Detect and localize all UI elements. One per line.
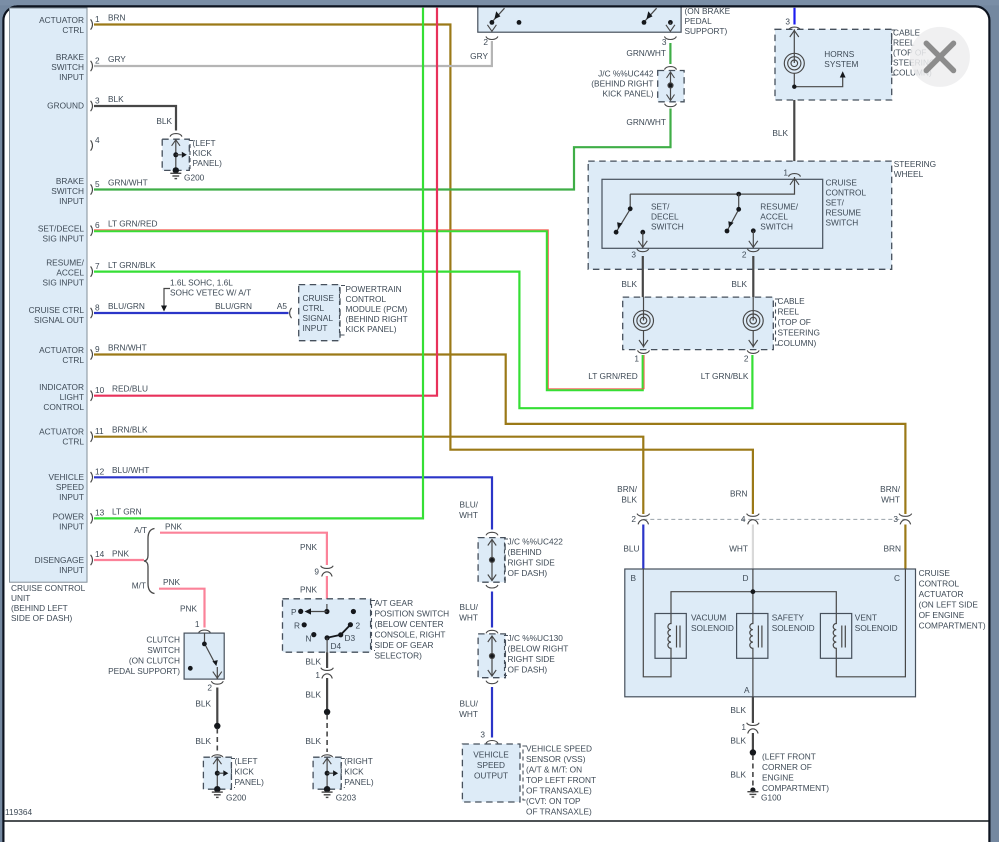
svg-text:A/T GEAR: A/T GEAR (375, 598, 414, 608)
svg-text:3: 3 (662, 37, 667, 47)
svg-text:BLK: BLK (305, 690, 321, 700)
connector row dashed line (643, 518, 905, 520)
svg-text:BLK: BLK (772, 128, 788, 138)
svg-text:N: N (306, 634, 312, 644)
BLU/WHT label (459, 602, 479, 623)
svg-text:CONTROL: CONTROL (919, 579, 960, 589)
switch feed bus (630, 177, 794, 194)
A/T gear position switch box (283, 599, 371, 652)
svg-text:BRN: BRN (883, 544, 901, 554)
cable reel coil (steering column, horn circuit) (784, 53, 804, 73)
svg-text:2: 2 (356, 621, 361, 631)
note 1.6L SOHC (161, 278, 251, 312)
svg-text:SET/: SET/ (826, 198, 845, 208)
svg-text:(BELOW RIGHT: (BELOW RIGHT (508, 644, 569, 654)
svg-text:PEDAL: PEDAL (685, 16, 713, 26)
svg-text:CONTROL: CONTROL (43, 402, 84, 412)
svg-text:LT GRN: LT GRN (112, 507, 142, 517)
wire BLU horn feed from page top (793, 8, 795, 25)
pin 4 connector (91, 135, 100, 151)
G200 junction box upper (left kick panel) (162, 134, 189, 179)
svg-text:A5: A5 (277, 301, 288, 311)
svg-text:13: 13 (95, 508, 105, 518)
svg-text:BLU/GRN: BLU/GRN (215, 301, 252, 311)
cable reel label (top) (892, 28, 936, 78)
svg-text:BLK: BLK (156, 116, 172, 126)
svg-text:PANEL): PANEL) (344, 777, 374, 787)
svg-text:INDICATOR: INDICATOR (39, 382, 84, 392)
safety solenoid (737, 614, 768, 659)
svg-text:CTRL: CTRL (303, 303, 325, 313)
wire PNK pin14 to brace (94, 559, 144, 561)
svg-text:SOLENOID: SOLENOID (691, 623, 734, 633)
wire BRN/BLK pin11 to connector 2 (94, 437, 643, 514)
pin 1 connector into switch (783, 168, 800, 185)
svg-text:SWITCH: SWITCH (51, 62, 84, 72)
brake switch left second contact (517, 20, 522, 25)
svg-text:KICK PANEL): KICK PANEL) (346, 324, 397, 334)
svg-text:CTRL: CTRL (62, 437, 84, 447)
svg-text:SYSTEM: SYSTEM (824, 59, 858, 69)
wire PNK below connector 9 into A/T gear switch (326, 576, 328, 609)
svg-text:REEL: REEL (778, 307, 800, 317)
wire BLK switch 3 to cable reel (642, 256, 644, 311)
svg-text:(TOP OF: (TOP OF (778, 317, 811, 327)
svg-text:PEDAL SUPPORT): PEDAL SUPPORT) (108, 666, 180, 676)
svg-text:LT GRN/BLK: LT GRN/BLK (701, 371, 749, 381)
svg-text:(BEHIND LEFT: (BEHIND LEFT (11, 603, 68, 613)
wire BLK pin3 to G200 junction (94, 106, 176, 131)
svg-text:SWITCH: SWITCH (760, 222, 793, 232)
svg-text:(BEHIND RIGHT: (BEHIND RIGHT (346, 314, 408, 324)
svg-text:ACTUATOR: ACTUATOR (39, 345, 84, 355)
HORNS SYSTEM label (824, 49, 858, 69)
horn feed arrow into box (790, 29, 799, 63)
wire BLK dashed to G100 (752, 755, 754, 790)
left kick panel label (190, 138, 222, 169)
svg-text:BRN/: BRN/ (617, 484, 638, 494)
svg-text:GRN/WHT: GRN/WHT (626, 117, 666, 127)
svg-text:POWERTRAIN: POWERTRAIN (346, 284, 402, 294)
J/C UC130 junction box (478, 630, 505, 683)
svg-text:INPUT: INPUT (59, 522, 84, 532)
svg-text:PANEL): PANEL) (193, 158, 223, 168)
extra contact top right (351, 609, 356, 614)
svg-text:INPUT: INPUT (59, 492, 84, 502)
svg-text:1: 1 (783, 168, 788, 178)
svg-text:(BEHIND RIGHT: (BEHIND RIGHT (591, 79, 653, 89)
svg-text:WHT: WHT (729, 544, 748, 554)
cruise control set/resume switch label (826, 178, 867, 228)
wire BLK dashed to G200 (216, 729, 218, 753)
svg-text:8: 8 (95, 303, 100, 313)
close button (910, 27, 970, 87)
svg-text:1: 1 (95, 14, 100, 24)
connector 9 (314, 566, 333, 577)
svg-text:RIGHT SIDE: RIGHT SIDE (508, 558, 556, 568)
card top border over content (17, 5, 977, 7)
svg-text:PNK: PNK (300, 585, 318, 595)
svg-text:BLK: BLK (108, 94, 124, 104)
P contact (291, 607, 303, 617)
svg-text:BLK: BLK (305, 736, 321, 746)
svg-text:TOP LEFT FRONT: TOP LEFT FRONT (526, 775, 596, 785)
vehicle speed output box (462, 744, 520, 802)
connector 3 (893, 514, 911, 525)
svg-text:R: R (294, 621, 300, 631)
brake switch right contact (642, 8, 657, 25)
svg-text:BLK: BLK (730, 770, 746, 780)
connector 1 below actuator (741, 722, 759, 734)
SAFETY SOLENOID label (772, 613, 815, 634)
svg-text:WHT: WHT (459, 709, 478, 719)
pin 7 connector (91, 260, 157, 277)
svg-text:BLU: BLU (623, 544, 639, 554)
svg-text:BRN: BRN (108, 13, 126, 23)
svg-text:BLK: BLK (730, 705, 746, 715)
J/C UC422 junction box (478, 532, 505, 588)
cable reel pin 1 cup (634, 350, 649, 363)
wire BLK clutch to splice (216, 688, 218, 724)
pin 9 connector (91, 343, 147, 360)
svg-text:VEHICLE: VEHICLE (48, 472, 84, 482)
svg-text:SOLENOID: SOLENOID (855, 623, 898, 633)
clutch switch label (108, 635, 180, 677)
actuator internal wire from D (752, 569, 754, 614)
svg-text:KICK: KICK (193, 148, 213, 158)
pin 6 connector (91, 219, 158, 236)
on brake pedal support label (685, 6, 731, 36)
svg-text:CRUISE CTRL: CRUISE CTRL (29, 305, 85, 315)
svg-text:BLK: BLK (305, 657, 321, 667)
svg-text:CRUISE: CRUISE (826, 178, 858, 188)
wire PNK A/T branch to connector 9 (160, 533, 327, 565)
N contact (306, 632, 317, 644)
svg-text:1: 1 (195, 619, 200, 629)
svg-text:D3: D3 (345, 633, 356, 643)
svg-text:BRN: BRN (730, 489, 748, 499)
svg-text:STEERING: STEERING (894, 159, 936, 169)
wire LT GRN pin13 up to page top (94, 8, 423, 519)
wire BLU/WHT pin12 to J/C UC422 (94, 477, 492, 529)
svg-text:2: 2 (744, 354, 749, 364)
svg-text:CONSOLE, RIGHT: CONSOLE, RIGHT (375, 630, 446, 640)
gear switch output wire (326, 638, 328, 652)
svg-text:3: 3 (785, 17, 790, 27)
ground G100 (747, 787, 781, 802)
svg-text:KICK: KICK (344, 767, 364, 777)
svg-text:6: 6 (95, 220, 100, 230)
svg-text:10: 10 (95, 385, 105, 395)
svg-text:J/C %%UC130: J/C %%UC130 (508, 633, 564, 643)
cruise ctrl signal input box (PCM) (299, 285, 340, 341)
svg-text:2: 2 (483, 37, 488, 47)
pin 12 connector (91, 465, 150, 482)
svg-text:RESUME/: RESUME/ (46, 258, 84, 268)
vacuum solenoid (655, 614, 686, 659)
brake switch box (on brake pedal support) (478, 0, 681, 32)
svg-text:(ON CLUTCH: (ON CLUTCH (129, 656, 180, 666)
svg-text:PNK: PNK (300, 542, 318, 552)
brake switch pin 3 cup (626, 37, 676, 59)
svg-text:P: P (291, 607, 297, 617)
svg-text:BLK: BLK (621, 279, 637, 289)
svg-text:(A/T & M/T: ON: (A/T & M/T: ON (526, 765, 582, 775)
actuator solenoid feed bus (671, 592, 836, 614)
svg-text:VEHICLE: VEHICLE (473, 750, 509, 760)
svg-text:OF DASH): OF DASH) (508, 568, 548, 578)
cruise control set/resume switch inner box (602, 179, 823, 248)
horn pin 3 cup (785, 17, 800, 31)
svg-text:VENT: VENT (855, 613, 877, 623)
svg-text:PNK: PNK (163, 577, 181, 587)
svg-text:C: C (894, 573, 900, 583)
wire BLK to splice (326, 678, 328, 710)
actuator internal wire from B (643, 569, 671, 677)
svg-text:3: 3 (631, 250, 636, 260)
wire BLK actuator A down (752, 697, 754, 723)
svg-text:CONTROL: CONTROL (826, 188, 867, 198)
svg-text:GRN/WHT: GRN/WHT (626, 48, 666, 58)
svg-text:CTRL: CTRL (62, 25, 84, 35)
svg-text:OF DASH): OF DASH) (508, 665, 548, 675)
actuator internal wire safety to A (752, 658, 754, 697)
svg-text:HORNS: HORNS (824, 49, 854, 59)
J/C UC422 label (505, 537, 564, 581)
svg-text:(CVT: ON TOP: (CVT: ON TOP (526, 796, 581, 806)
wire GRY pin2 to brake switch pin2 (94, 41, 492, 66)
wire BLK switch 2 to cable reel (752, 256, 754, 311)
svg-text:SPEED: SPEED (56, 482, 84, 492)
svg-text:ACTUATOR: ACTUATOR (39, 15, 84, 25)
pin 8 connector (91, 301, 145, 318)
svg-text:STEERING: STEERING (778, 328, 820, 338)
svg-text:(BEHIND: (BEHIND (508, 547, 542, 557)
svg-text:CABLE: CABLE (893, 28, 921, 38)
svg-text:2: 2 (207, 683, 212, 693)
svg-text:LT GRN/BLK: LT GRN/BLK (108, 260, 156, 270)
wire BLU/WHT UC130 to VSS (491, 687, 493, 738)
clutch pin 2 cup (207, 681, 223, 692)
svg-text:M/T: M/T (132, 581, 146, 591)
svg-text:G200: G200 (226, 793, 247, 803)
splice dot (750, 749, 756, 755)
svg-text:CRUISE CONTROL: CRUISE CONTROL (11, 583, 86, 593)
svg-text:SIGNAL: SIGNAL (303, 313, 334, 323)
svg-text:7: 7 (95, 261, 100, 271)
wire BRN/WHT pin9 to connector 3 (94, 355, 905, 515)
svg-text:INPUT: INPUT (59, 196, 84, 206)
svg-text:ACCEL: ACCEL (56, 268, 84, 278)
svg-text:RIGHT SIDE: RIGHT SIDE (508, 654, 556, 664)
BLU/WHT label above UC422 (459, 500, 479, 521)
A/T M/T brace (144, 529, 155, 594)
svg-text:KICK: KICK (235, 767, 255, 777)
svg-text:SUPPORT): SUPPORT) (685, 26, 728, 36)
cruise control actuator box (625, 569, 916, 697)
brake switch pin 2 cup (470, 37, 498, 62)
svg-text:GROUND: GROUND (47, 101, 84, 111)
VENT SOLENOID label (855, 613, 898, 634)
switch pin 2 cup (742, 249, 759, 260)
svg-text:SIG INPUT: SIG INPUT (43, 278, 85, 288)
svg-text:4: 4 (741, 514, 746, 524)
D4 contact and blade (325, 621, 361, 652)
right kick panel label (341, 756, 374, 788)
svg-text:A: A (744, 685, 750, 695)
svg-text:LT GRN/RED: LT GRN/RED (588, 371, 637, 381)
cable reel label (lower) (776, 296, 820, 348)
A/T gear position switch label (372, 598, 450, 661)
svg-text:SIGNAL OUT: SIGNAL OUT (34, 315, 84, 325)
svg-text:MODULE (PCM): MODULE (PCM) (346, 304, 408, 314)
svg-text:VEHICLE SPEED: VEHICLE SPEED (526, 744, 592, 754)
svg-text:REEL: REEL (893, 38, 915, 48)
svg-text:VACUUM: VACUUM (691, 613, 726, 623)
svg-text:KICK PANEL): KICK PANEL) (602, 89, 653, 99)
svg-text:12: 12 (95, 467, 105, 477)
wire GRN/WHT pin5 to J/C UC442 (94, 109, 671, 190)
svg-text:GRN/WHT: GRN/WHT (108, 178, 148, 188)
svg-text:1: 1 (634, 354, 639, 364)
svg-text:GRY: GRY (470, 51, 488, 61)
splice dot (324, 709, 330, 715)
svg-text:UNIT: UNIT (11, 593, 30, 603)
wire BLK gear switch down (326, 652, 328, 668)
cable reel spiral 2 (743, 297, 763, 347)
svg-text:SELECTOR): SELECTOR) (375, 651, 423, 661)
connector 1 (315, 668, 333, 680)
wire BLK to splice (752, 733, 754, 750)
svg-text:ACTUATOR: ACTUATOR (919, 589, 964, 599)
BRN/BLK label (617, 484, 638, 505)
resume/accel switch (725, 192, 758, 249)
cruise control actuator label (919, 568, 986, 631)
svg-text:CLUTCH: CLUTCH (146, 635, 180, 645)
connector 2 (631, 514, 649, 525)
vehicle speed sensor label (523, 744, 596, 817)
svg-text:CONTROL: CONTROL (346, 294, 387, 304)
wire LT GRN/RED pin6 to cable reel pin1 (green) (94, 231, 643, 390)
cable reel spiral 1 (634, 297, 654, 347)
svg-text:J/C %%UC422: J/C %%UC422 (508, 537, 564, 547)
svg-text:SOLENOID: SOLENOID (772, 623, 815, 633)
svg-text:3: 3 (95, 96, 100, 106)
svg-text:RESUME/: RESUME/ (760, 202, 798, 212)
steering wheel label (894, 159, 936, 179)
svg-text:G100: G100 (761, 793, 782, 803)
wire BLU connector2 to actuator B (642, 525, 644, 571)
svg-text:BLU/WHT: BLU/WHT (112, 465, 149, 475)
brake switch right output contact (666, 20, 675, 31)
svg-text:(LEFT FRONT: (LEFT FRONT (762, 752, 816, 762)
J/C UC130 label (505, 633, 569, 676)
svg-text:(BELOW CENTER: (BELOW CENTER (375, 619, 444, 629)
brake switch left contact (487, 8, 504, 31)
VACUUM SOLENOID label (691, 613, 734, 634)
svg-text:SIDE OF GEAR: SIDE OF GEAR (375, 640, 434, 650)
svg-text:BRN/WHT: BRN/WHT (108, 343, 147, 353)
svg-text:14: 14 (95, 549, 105, 559)
bottom rule of diagram page (5, 820, 989, 822)
cable reel box (top of steering column) (623, 297, 774, 350)
svg-text:SET/DECEL: SET/DECEL (38, 224, 84, 234)
svg-text:SIG INPUT: SIG INPUT (43, 234, 85, 244)
svg-text:RED/BLU: RED/BLU (112, 384, 148, 394)
svg-text:COMPARTMENT): COMPARTMENT) (762, 783, 829, 793)
svg-text:2: 2 (631, 514, 636, 524)
svg-text:SIDE OF DASH): SIDE OF DASH) (11, 613, 73, 623)
svg-text:B: B (631, 573, 637, 583)
svg-text:SWITCH: SWITCH (826, 218, 859, 228)
svg-text:PNK: PNK (112, 549, 130, 559)
wire LT GRN/RED red tracer (94, 230, 644, 389)
pin 3 connector (91, 94, 125, 111)
svg-text:SWITCH: SWITCH (51, 186, 84, 196)
svg-text:OUTPUT: OUTPUT (474, 771, 508, 781)
gear switch feed (305, 604, 330, 615)
pin 13 connector (91, 507, 142, 524)
svg-text:COLUMN): COLUMN) (778, 338, 817, 348)
svg-text:BLK: BLK (195, 736, 211, 746)
left front corner label (762, 752, 829, 794)
R contact (294, 621, 307, 631)
cable reel pin 2 cup (744, 350, 759, 363)
svg-text:RESUME: RESUME (826, 208, 862, 218)
svg-text:CORNER OF: CORNER OF (762, 762, 812, 772)
SET/DECEL SWITCH label (651, 202, 684, 232)
svg-text:(LEFT: (LEFT (193, 138, 216, 148)
vent solenoid (820, 614, 851, 659)
switch pin 3 cup (631, 249, 648, 260)
horns system box (775, 29, 892, 100)
svg-text:9: 9 (95, 344, 100, 354)
steering wheel box (588, 161, 892, 269)
svg-text:BLK: BLK (195, 699, 211, 709)
svg-text:SWITCH: SWITCH (651, 222, 684, 232)
svg-text:BRAKE: BRAKE (56, 176, 85, 186)
svg-text:GRY: GRY (108, 54, 126, 64)
svg-text:CABLE: CABLE (778, 296, 806, 306)
svg-text:PNK: PNK (180, 604, 198, 614)
svg-text:SOHC VETEC W/ A/T: SOHC VETEC W/ A/T (170, 288, 251, 298)
svg-text:3: 3 (893, 514, 898, 524)
svg-text:G203: G203 (336, 793, 357, 803)
svg-text:5: 5 (95, 179, 100, 189)
pin 2 connector (91, 54, 127, 71)
svg-text:119364: 119364 (5, 807, 32, 817)
connector 4 (741, 514, 759, 525)
svg-text:CTRL: CTRL (62, 355, 84, 365)
wire GRN/WHT brake switch to UC442 (669, 43, 671, 64)
svg-text:SWITCH: SWITCH (147, 645, 180, 655)
wire BRN connector3 to actuator C (904, 525, 906, 571)
svg-text:OF ENGINE: OF ENGINE (919, 610, 965, 620)
svg-text:LT GRN/RED: LT GRN/RED (108, 219, 157, 229)
svg-text:1: 1 (315, 670, 320, 680)
pin 10 connector (91, 384, 148, 401)
svg-text:BLK: BLK (730, 736, 746, 746)
left kick panel label (232, 756, 265, 788)
svg-text:ACTUATOR: ACTUATOR (39, 427, 84, 437)
svg-text:(ON LEFT SIDE: (ON LEFT SIDE (919, 600, 979, 610)
svg-text:D: D (743, 573, 749, 583)
BRN/WHT label (880, 484, 901, 505)
svg-text:9: 9 (314, 567, 319, 577)
wire BRN pin1 to connector 4 (94, 25, 753, 515)
svg-text:OF TRANSAXLE): OF TRANSAXLE) (526, 807, 592, 817)
svg-text:INPUT: INPUT (303, 323, 328, 333)
